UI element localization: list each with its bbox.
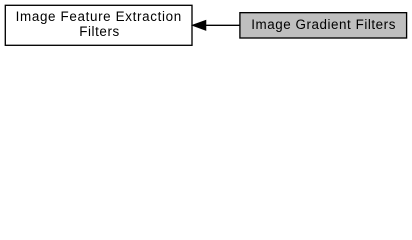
- background: [0, 0, 412, 51]
- node: Image Gradient Filters (current module, gray box): [240, 13, 407, 38]
- node label line 1: "Image Feature Extraction": [16, 9, 181, 24]
- arrowhead pointing at left node: [193, 21, 206, 30]
- node label line 2: "Filters": [79, 24, 119, 39]
- node label: "Image Gradient Filters": [251, 17, 395, 32]
- node: Image Feature Extraction Filters (box): [5, 5, 192, 45]
- svg-text:Image Gradient Filters: Image Gradient Filters: [251, 17, 395, 32]
- svg-text:Filters: Filters: [79, 24, 119, 39]
- edge wire: from current node to dependency: [205, 24, 241, 26]
- svg-text:Image Feature Extraction: Image Feature Extraction: [16, 9, 181, 24]
